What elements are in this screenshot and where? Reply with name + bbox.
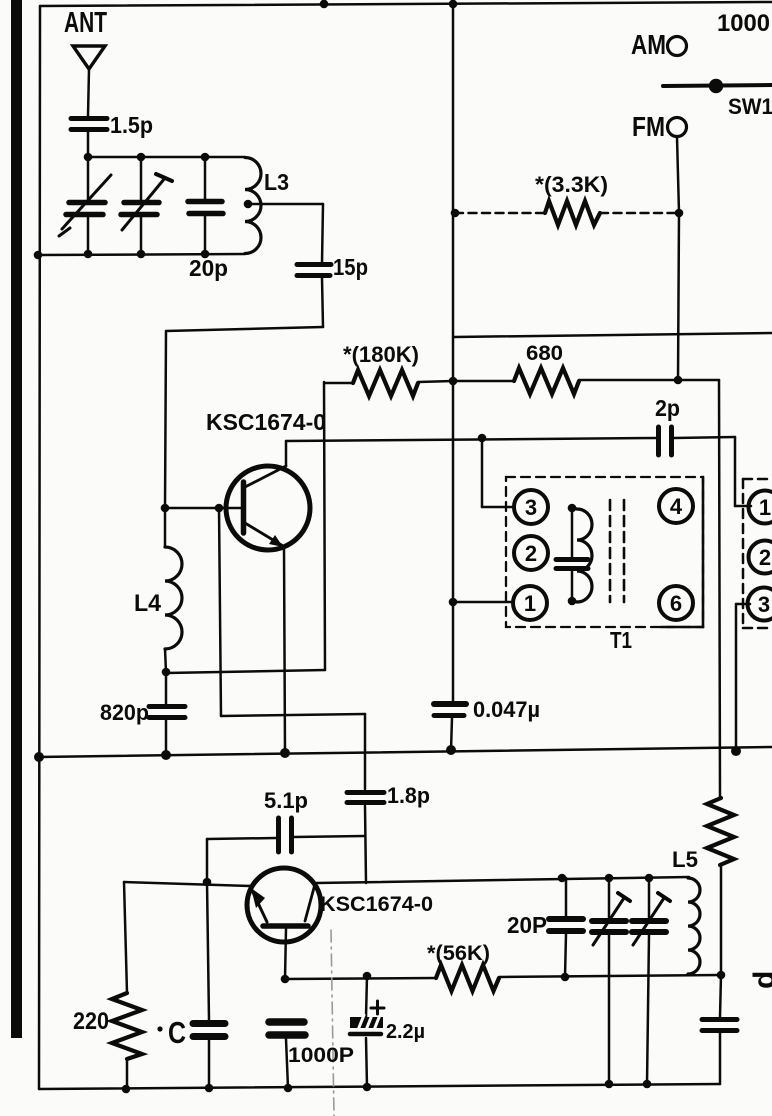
svg-text:*(3.3K): *(3.3K) [535,172,608,197]
svg-text:SW1: SW1 [728,94,772,119]
svg-text:1: 1 [759,495,771,520]
svg-text:*(56K): *(56K) [427,942,490,965]
svg-text:2: 2 [525,541,537,566]
svg-text:KSC1674-0: KSC1674-0 [320,893,433,916]
svg-text:2.2µ: 2.2µ [386,1021,425,1043]
svg-text:220: 220 [73,1008,109,1035]
svg-text:680: 680 [526,342,563,365]
svg-text:20p: 20p [189,255,228,281]
svg-text:4: 4 [670,494,683,519]
svg-text:5.1p: 5.1p [264,788,308,813]
svg-text:T1: T1 [610,627,632,653]
svg-text:L3: L3 [264,169,289,195]
svg-text:ANT: ANT [64,7,107,39]
svg-text:2: 2 [759,545,771,570]
svg-text:L5: L5 [672,847,698,872]
svg-text:KSC1674-0: KSC1674-0 [206,409,326,435]
svg-text:0.047µ: 0.047µ [473,697,540,722]
svg-text:3: 3 [525,495,537,520]
svg-text:*(180K): *(180K) [343,342,419,367]
svg-text:3: 3 [758,592,770,617]
svg-text:d: d [748,971,772,989]
svg-text:2p: 2p [655,395,680,421]
svg-text:1.5p: 1.5p [110,112,153,138]
svg-text:15p: 15p [333,254,368,280]
svg-text:20P: 20P [507,912,547,938]
svg-text:1000: 1000 [717,10,770,37]
svg-text:1: 1 [524,591,536,616]
svg-text:820p: 820p [100,700,149,725]
svg-text:1.8p: 1.8p [387,783,430,808]
svg-text:FM: FM [632,111,665,142]
svg-text:6: 6 [670,591,682,616]
svg-text:C: C [168,1015,186,1050]
svg-text:L4: L4 [134,590,162,617]
svg-text:AM: AM [631,29,666,60]
svg-text:1000P: 1000P [288,1044,354,1067]
